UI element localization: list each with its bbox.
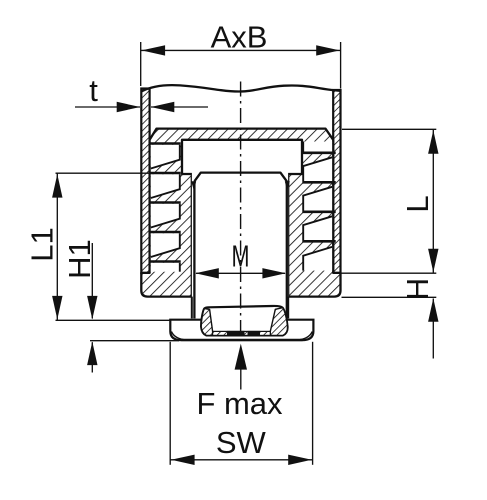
svg-text:L: L [400, 195, 435, 212]
svg-text:M: M [232, 239, 250, 274]
svg-text:H: H [400, 278, 435, 300]
svg-text:t: t [89, 73, 98, 108]
svg-text:SW: SW [216, 425, 267, 460]
svg-text:F max: F max [196, 386, 283, 421]
svg-text:AxB: AxB [211, 20, 268, 55]
svg-text:L1: L1 [24, 227, 59, 261]
svg-text:H1: H1 [62, 239, 97, 279]
